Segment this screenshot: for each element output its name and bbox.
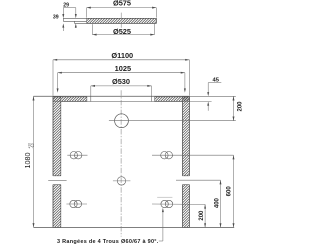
arrow down 39 top bbox=[62, 14, 64, 18]
dim line 200 lower bbox=[204, 204, 206, 227]
dim line D525 bbox=[92, 34, 154, 36]
arrow up 39 bottom bbox=[62, 23, 64, 27]
right wall outer upper bbox=[188, 96, 190, 176]
ext 1025 right bbox=[184, 73, 186, 89]
main vertical centerline bbox=[120, 90, 122, 236]
svg-text:Ø530: Ø530 bbox=[112, 77, 130, 86]
dim line D1100 bbox=[53, 59, 189, 61]
svg-text:200: 200 bbox=[238, 101, 244, 112]
ext 1025 left bbox=[57, 73, 59, 89]
right wall hole bottom edge bbox=[183, 184, 190, 186]
plate right edge bbox=[155, 18, 157, 23]
arrow down 29 top bbox=[75, 14, 77, 18]
top wall hatch left bbox=[49, 97, 90, 102]
svg-text:400: 400 bbox=[215, 197, 221, 208]
dim line D530 bbox=[91, 85, 152, 87]
left wall inner upper bbox=[60, 102, 62, 176]
row2 center hole bbox=[117, 177, 125, 185]
left wall hole top edge bbox=[53, 175, 61, 177]
left wall hatch lower bbox=[10, 185, 102, 228]
hatched plate section bbox=[82, 18, 160, 23]
row3 left centerline bbox=[66, 203, 87, 205]
ext line left of detail bbox=[62, 8, 64, 15]
note leader horizontal bbox=[159, 240, 163, 242]
row2 center hole centerline bbox=[113, 180, 130, 182]
plate step line bbox=[63, 20, 86, 22]
ext line 29 right bbox=[75, 8, 77, 15]
plate bottom surface bbox=[75, 22, 157, 24]
row1 hole left a bbox=[70, 152, 77, 159]
box top wall inner surface bbox=[61, 101, 183, 103]
row3 hole left a bbox=[70, 200, 77, 207]
svg-text:39: 39 bbox=[53, 14, 59, 20]
45 upper shaft bbox=[207, 83, 209, 93]
ext line D525 right bbox=[154, 23, 156, 34]
ext D530 left / hole edge bbox=[90, 86, 92, 96]
svg-text:1080: 1080 bbox=[23, 153, 32, 169]
dim line 29 bbox=[63, 7, 76, 9]
ext line D575 right bbox=[155, 8, 157, 18]
ext inner surface to 45 dim bbox=[189, 101, 211, 103]
dim line D575 bbox=[87, 7, 157, 9]
dim line 1080 bbox=[33, 96, 35, 227]
left wall hole centerline bbox=[48, 179, 66, 181]
arrow 1025 left down bbox=[57, 88, 59, 92]
D530 hole left edge bbox=[90, 96, 92, 101]
dim line 400 bbox=[220, 180, 222, 227]
aux gray line above row3 right bbox=[157, 196, 172, 198]
left wall outer lower bbox=[52, 185, 54, 228]
box top surface + 1080 ext bbox=[34, 95, 190, 97]
row3 right centerline + ext to 200 dim bbox=[152, 203, 205, 205]
right wall hatch upper bbox=[104, 97, 269, 176]
svg-text:200: 200 bbox=[199, 210, 205, 221]
45 leader line bbox=[208, 82, 221, 84]
ext of top surface to 200 dim bbox=[189, 95, 235, 97]
svg-text:-10: -10 bbox=[31, 143, 35, 148]
center hole D100 bbox=[115, 114, 129, 128]
45 arrow down bbox=[207, 92, 209, 96]
arrow 1025 right down bbox=[184, 88, 186, 92]
right wall hole centerline + ext to 400 dim bbox=[176, 179, 221, 181]
note leader arrow bbox=[162, 208, 164, 212]
svg-text:3 Rangées de 4 Trous Ø60/67 à: 3 Rangées de 4 Trous Ø60/67 à 90°. bbox=[57, 239, 159, 245]
dim line 600 bbox=[233, 155, 235, 227]
right wall inner upper bbox=[182, 102, 184, 176]
45 lower shaft bbox=[207, 105, 209, 111]
right wall hatch lower bbox=[140, 185, 232, 228]
plate top surface bbox=[63, 17, 156, 19]
row3 hole left b bbox=[74, 200, 81, 207]
dim line 200 upper bbox=[233, 96, 235, 120]
ext D530 right / hole edge bbox=[151, 86, 153, 96]
svg-text:Ø525: Ø525 bbox=[113, 27, 131, 36]
45 arrow up bbox=[207, 102, 209, 106]
row3 hole right b bbox=[165, 200, 172, 207]
ext D1100 left bbox=[52, 60, 54, 96]
ext line D525 left bbox=[91, 24, 93, 34]
left wall hole bottom edge bbox=[53, 184, 61, 186]
svg-text:Ø575: Ø575 bbox=[113, 0, 131, 8]
left wall outer upper bbox=[52, 96, 54, 176]
D530 hole right edge bbox=[151, 96, 153, 101]
ext D1100 right bbox=[188, 60, 190, 96]
right wall inner lower bbox=[182, 185, 184, 228]
right wall hole top edge bbox=[183, 175, 190, 177]
arrow up 29 bottom bbox=[75, 23, 77, 27]
left wall inner lower bbox=[60, 185, 62, 228]
row1 left centerline bbox=[67, 154, 87, 156]
center hole horizontal centerline + ext to 200 dim bbox=[109, 120, 236, 122]
ext line D575 left bbox=[86, 8, 88, 18]
dim line 1025 bbox=[58, 72, 185, 74]
box bottom edge + ext bbox=[34, 227, 235, 229]
right wall outer lower bbox=[188, 185, 190, 228]
svg-text:1025: 1025 bbox=[115, 64, 131, 73]
svg-text:600: 600 bbox=[227, 186, 233, 197]
left wall hatch upper bbox=[0, 97, 139, 176]
row3 hole right a bbox=[161, 200, 168, 207]
centerline of detail view bbox=[120, 13, 122, 30]
note leader vertical bbox=[162, 210, 164, 241]
row1 hole right b bbox=[165, 152, 172, 159]
plate left edge bbox=[62, 18, 64, 21]
top wall hatch right bbox=[150, 97, 194, 102]
svg-text:Ø1100: Ø1100 bbox=[111, 51, 133, 60]
row1 hole right a bbox=[161, 152, 168, 159]
row1 hole left b bbox=[75, 152, 82, 159]
row1 right centerline + ext to 600 dim bbox=[152, 154, 234, 156]
plate step edge bbox=[74, 21, 76, 23]
